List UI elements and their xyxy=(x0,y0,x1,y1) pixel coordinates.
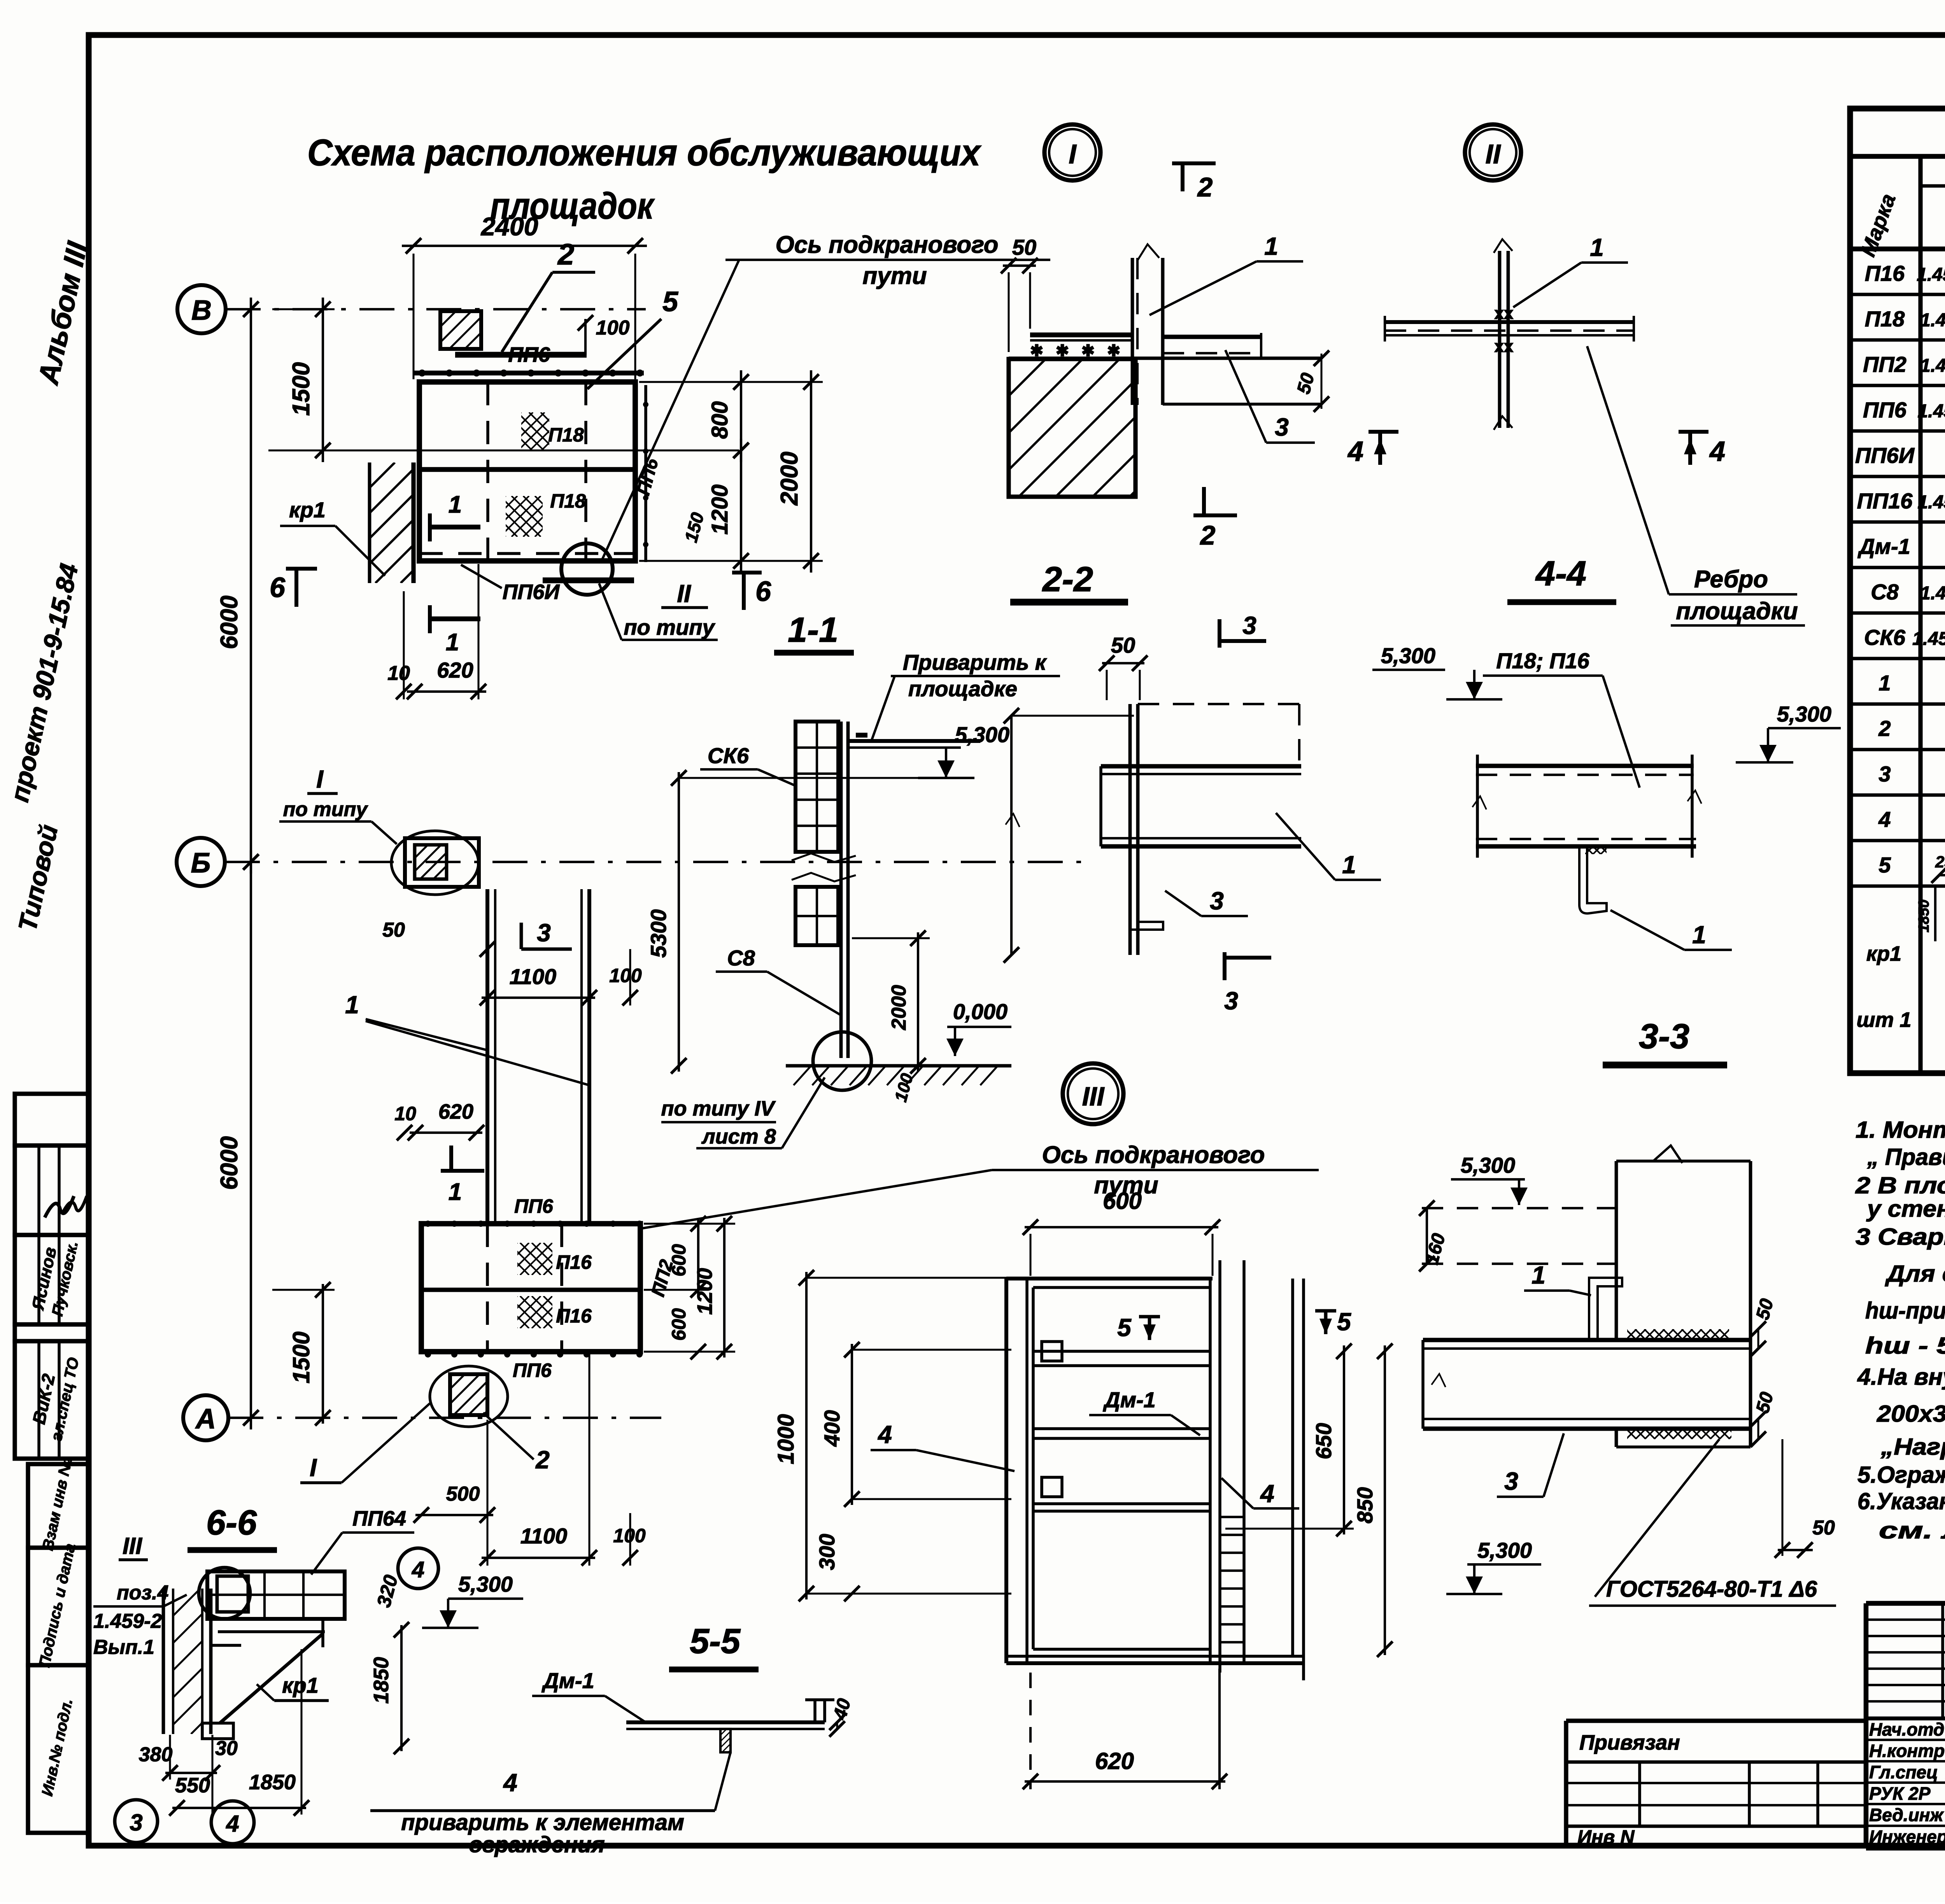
2-2 section mark 3 bottom xyxy=(1223,952,1227,980)
svg-text:50: 50 xyxy=(1111,633,1135,657)
svg-text:2: 2 xyxy=(1878,716,1891,741)
svg-text:СК6: СК6 xyxy=(1864,625,1906,650)
svg-text:А: А xyxy=(195,1403,216,1435)
svg-text:3: 3 xyxy=(1878,762,1891,786)
platform line at 5300 xyxy=(848,739,980,743)
svg-text:1: 1 xyxy=(1264,232,1278,260)
svg-text:400: 400 xyxy=(820,1410,844,1447)
svg-text:xx: xx xyxy=(1495,337,1514,356)
svg-text:300: 300 xyxy=(815,1534,839,1570)
svg-text:Дм-1: Дм-1 xyxy=(1857,534,1910,559)
svg-text:620: 620 xyxy=(437,658,473,682)
upper plan bottom dashed edge xyxy=(419,552,635,555)
svg-text:1: 1 xyxy=(1878,671,1891,695)
svg-text:5,300: 5,300 xyxy=(458,1572,513,1596)
svg-text:ПП6И: ПП6И xyxy=(503,580,560,604)
svg-text:1: 1 xyxy=(1692,921,1706,949)
axis circle V xyxy=(177,285,226,333)
dim 1500 lower xyxy=(322,1284,324,1424)
3-3 beam xyxy=(1423,1338,1750,1342)
svg-text:II: II xyxy=(677,580,691,608)
svg-text:ПП16: ПП16 xyxy=(1857,489,1913,513)
svg-text:III: III xyxy=(123,1533,142,1559)
III rungs xyxy=(1033,1350,1210,1353)
section mark 1 below upper plan xyxy=(428,605,432,633)
svg-text:1.459-2 Вып.2 л.100: 1.459-2 Вып.2 л.100 xyxy=(1912,629,1945,649)
6-6 inner square with circle xyxy=(217,1576,248,1612)
svg-text:1.459-2 Вып.2 л 80: 1.459-2 Вып.2 л 80 xyxy=(1917,492,1945,513)
detail I concrete block xyxy=(1009,359,1135,497)
stamp signatures squiggles xyxy=(45,1196,74,1217)
dim 1500 upper xyxy=(322,298,324,462)
axis dim 6000 upper xyxy=(250,298,252,874)
column strip lines xyxy=(485,889,489,1224)
svg-text:6000: 6000 xyxy=(216,1136,243,1190)
circle at ladder base xyxy=(813,1032,871,1090)
svg-text:ПП6И: ПП6И xyxy=(1855,443,1915,468)
ladder SK6 lower band xyxy=(796,887,838,945)
svg-text:5,300: 5,300 xyxy=(955,722,1009,747)
svg-text:100: 100 xyxy=(596,317,630,339)
III hooks xyxy=(1042,1342,1062,1361)
wall hatch upper plan xyxy=(368,462,371,583)
3-3 dashed levels xyxy=(1422,1207,1616,1209)
svg-text:поз.4: поз.4 xyxy=(117,1582,169,1604)
svg-text:800: 800 xyxy=(707,401,732,439)
svg-text:5300: 5300 xyxy=(646,909,671,958)
left stamp column boxes xyxy=(15,1094,89,1146)
svg-text:шт 1: шт 1 xyxy=(1856,1008,1911,1032)
svg-text:2: 2 xyxy=(1197,172,1213,202)
ground line and hatch xyxy=(786,1064,1011,1068)
svg-text:600: 600 xyxy=(1103,1188,1142,1214)
svg-text:10: 10 xyxy=(387,662,410,685)
svg-text:2: 2 xyxy=(557,238,574,271)
4-4 beam xyxy=(1476,764,1694,768)
ladder rail C8 xyxy=(839,722,843,1058)
circled I top xyxy=(1044,124,1100,180)
svg-text:1500: 1500 xyxy=(288,1331,314,1383)
svg-text:Вып.1: Вып.1 xyxy=(93,1636,154,1659)
svg-text:В: В xyxy=(191,295,212,326)
svg-text:5,300: 5,300 xyxy=(1477,1538,1532,1562)
svg-text:пути: пути xyxy=(862,263,927,289)
svg-text:5: 5 xyxy=(1117,1314,1132,1342)
svg-text:„Нагрузка на площадку не бол: „Нагрузка на площадку не более 1500кн /м… xyxy=(1880,1434,1945,1460)
svg-text:850: 850 xyxy=(1353,1487,1377,1523)
svg-text:I: I xyxy=(1069,139,1077,169)
2-2 left dim line xyxy=(1010,716,1013,955)
upper plan outline xyxy=(419,382,635,561)
section mark 2 above detail I xyxy=(1181,163,1185,191)
axis dim 6000 lower xyxy=(250,850,252,1429)
svg-text:2000: 2000 xyxy=(888,985,910,1030)
table vertical lines xyxy=(1918,156,1922,1073)
svg-text:2-2: 2-2 xyxy=(1042,560,1093,599)
svg-text:50: 50 xyxy=(1012,235,1036,259)
svg-text:Б: Б xyxy=(191,848,211,879)
svg-text:1.459-2 Вып.2 л32: 1.459-2 Вып.2 л32 xyxy=(1920,310,1945,331)
6-6 bottom box xyxy=(202,1723,233,1739)
2-2 wall column xyxy=(1128,704,1132,955)
svg-text:1200: 1200 xyxy=(693,1268,717,1315)
svg-text:С8: С8 xyxy=(1871,580,1899,604)
svg-text:1100: 1100 xyxy=(510,964,556,989)
svg-text:1.459-2: 1.459-2 xyxy=(93,1610,162,1633)
3-3 wall column xyxy=(1615,1161,1618,1340)
svg-text:Дм-1: Дм-1 xyxy=(541,1668,594,1693)
III right rail rungs xyxy=(1220,1516,1244,1518)
5-5 weld tick hatched xyxy=(720,1729,731,1752)
svg-text:2: 2 xyxy=(1200,520,1216,550)
svg-text:1.459-2 Вып 2 л75: 1.459-2 Вып 2 л75 xyxy=(1920,356,1945,376)
title block outer xyxy=(1864,1603,1869,1848)
svg-text:380: 380 xyxy=(139,1743,173,1766)
svg-text:Инженер: Инженер xyxy=(1869,1827,1945,1847)
svg-text:4: 4 xyxy=(1878,807,1891,832)
svg-text:5-5: 5-5 xyxy=(690,1622,741,1661)
5-5 plate drawing xyxy=(626,1720,825,1724)
6-6 wall hatched xyxy=(162,1589,165,1734)
junction circle II xyxy=(561,543,613,595)
upper plan divider xyxy=(419,467,635,472)
thick bar element 2 xyxy=(455,352,587,358)
svg-text:3: 3 xyxy=(1504,1467,1518,1495)
svg-text:3: 3 xyxy=(1224,987,1238,1015)
svg-text:100: 100 xyxy=(609,965,642,986)
svg-text:hш - 5мм, кроме оговоренных.: hш - 5мм, кроме оговоренных. xyxy=(1865,1333,1945,1359)
svg-text:1: 1 xyxy=(1590,233,1604,261)
dim 2000 right xyxy=(810,370,812,573)
4-4 channel below xyxy=(1579,846,1607,913)
III dim 850 xyxy=(1384,1345,1386,1655)
svg-text:П18: П18 xyxy=(548,424,584,446)
circled 4 upper xyxy=(398,1548,438,1589)
svg-text:650: 650 xyxy=(1311,1423,1336,1459)
section mark 2 below detail I xyxy=(1202,487,1206,515)
svg-text:1.459-2 Вып.2 л 76: 1.459-2 Вып.2 л 76 xyxy=(1917,401,1945,422)
svg-text:4: 4 xyxy=(412,1557,424,1582)
III view outer frame xyxy=(1004,1279,1008,1663)
svg-text:5,300: 5,300 xyxy=(1461,1153,1515,1177)
ladder SK6 upper band xyxy=(796,722,838,852)
dim 2000 xyxy=(917,932,919,1072)
svg-text:550: 550 xyxy=(175,1774,210,1797)
lower plan divider xyxy=(421,1287,640,1292)
detail II beam xyxy=(1385,320,1634,324)
svg-text:Вед.инж: Вед.инж xyxy=(1869,1805,1944,1825)
svg-text:III: III xyxy=(1082,1082,1105,1111)
dim 1200 right xyxy=(740,439,742,573)
2-2 beam flanges xyxy=(1101,764,1301,768)
svg-text:ПП6: ПП6 xyxy=(1863,398,1907,422)
circled 3 bottom xyxy=(115,1800,158,1843)
leader 4 privarit xyxy=(715,1752,731,1811)
svg-text:П18; П16: П18; П16 xyxy=(1496,648,1589,673)
table ved outer frame xyxy=(1850,109,1945,1073)
svg-text:4: 4 xyxy=(1347,436,1363,467)
detail I left platform xyxy=(1030,333,1132,338)
2-2 channel below xyxy=(1130,846,1163,930)
svg-text:4: 4 xyxy=(226,1811,239,1837)
small plan at axis B xyxy=(405,838,479,887)
svg-text:ПП64: ПП64 xyxy=(352,1507,406,1530)
detail I column xyxy=(1131,258,1134,405)
dim 1850 rotated xyxy=(400,1625,403,1751)
svg-text:С8: С8 xyxy=(727,946,755,970)
leader GOST xyxy=(1595,1439,1719,1597)
svg-text:6000: 6000 xyxy=(216,596,243,649)
III dims 1000 400 300 xyxy=(805,1272,808,1599)
svg-text:5,300: 5,300 xyxy=(1777,702,1831,726)
2-2 section mark 3 top xyxy=(1218,619,1221,648)
svg-text:1: 1 xyxy=(449,1179,462,1205)
svg-text:3: 3 xyxy=(1275,413,1289,441)
svg-text:ГОСТ5264-80-Т1 Δ6: ГОСТ5264-80-Т1 Δ6 xyxy=(1606,1576,1817,1602)
hatched square top (element 2) xyxy=(440,311,481,349)
III right rail strip xyxy=(1291,1279,1294,1656)
leader crane rail upper xyxy=(601,260,739,562)
svg-text:„ Правила производства и прием: „ Правила производства и приемки работ.М… xyxy=(1867,1144,1945,1170)
svg-text:Нач.отд: Нач.отд xyxy=(1869,1719,1944,1739)
svg-text:Гл.спец: Гл.спец xyxy=(1869,1762,1938,1782)
lower plan bottom dots xyxy=(425,1351,431,1357)
svg-text:Инв N: Инв N xyxy=(1577,1826,1635,1848)
svg-text:3: 3 xyxy=(130,1809,142,1836)
table header bottom line xyxy=(1850,247,1945,252)
ladder break marks xyxy=(792,853,856,862)
svg-text:620: 620 xyxy=(1095,1748,1134,1774)
axis dash line V xyxy=(226,308,646,310)
section mark 1 inside upper plan xyxy=(428,513,432,541)
svg-text:П16: П16 xyxy=(556,1251,592,1273)
detail I right beam xyxy=(1163,335,1261,339)
svg-text:3: 3 xyxy=(1242,611,1256,639)
svg-text:600: 600 xyxy=(668,1308,690,1341)
svg-text:1: 1 xyxy=(1342,851,1356,879)
svg-text:площадки: площадки xyxy=(1676,598,1798,625)
circled II top xyxy=(1465,124,1521,180)
svg-text:6: 6 xyxy=(270,572,286,603)
svg-text:1. Монтаж площадок производ: 1. Монтаж площадок производить в соответ… xyxy=(1856,1117,1945,1143)
svg-text:по типу: по типу xyxy=(624,615,715,639)
svg-text:1.459-2 Вып.1 л64: 1.459-2 Вып.1 л64 xyxy=(1920,583,1945,604)
leader P18 P16 xyxy=(1603,676,1640,788)
svg-text:4: 4 xyxy=(1709,436,1725,467)
title block upper small rows xyxy=(1866,1618,1945,1621)
hatched square below lower plan xyxy=(450,1374,487,1415)
svg-text:0,000: 0,000 xyxy=(953,999,1008,1024)
svg-text:1000: 1000 xyxy=(773,1414,799,1464)
svg-text:5: 5 xyxy=(1878,853,1891,877)
svg-text:П18: П18 xyxy=(550,490,586,512)
svg-text:3 Сварку производить электрод: 3 Сварку производить электродами типа Э-… xyxy=(1856,1224,1945,1250)
svg-text:2000: 2000 xyxy=(776,452,803,506)
svg-text:кр1: кр1 xyxy=(1866,942,1901,965)
svg-text:50: 50 xyxy=(1812,1517,1835,1539)
svg-text:П16: П16 xyxy=(1865,261,1905,286)
table title row line xyxy=(1850,154,1945,159)
svg-text:РУК 2Р: РУК 2Р xyxy=(1869,1783,1931,1804)
svg-text:5,300: 5,300 xyxy=(1381,643,1435,668)
svg-text:кр1: кр1 xyxy=(282,1673,319,1697)
dim 5300 vertical xyxy=(678,772,680,1072)
svg-text:3-3: 3-3 xyxy=(1639,1017,1689,1056)
svg-text:500: 500 xyxy=(446,1483,480,1505)
svg-text:hш-принять по указанной серии: hш-принять по указанной серии, для остал… xyxy=(1865,1298,1945,1324)
lower plan top dots xyxy=(425,1221,431,1227)
svg-text:5: 5 xyxy=(1337,1308,1351,1336)
dim 100 upper plan xyxy=(584,319,587,355)
svg-text:2 В площадках П16 и П18 ре: 2 В площадках П16 и П18 ребра для крепле… xyxy=(1855,1172,1945,1198)
svg-text:xx: xx xyxy=(1495,304,1514,323)
svg-text:приварить к элементам: приварить к элементам xyxy=(401,1810,684,1835)
svg-text:ПП6: ПП6 xyxy=(514,1195,554,1217)
svg-text:площадке: площадке xyxy=(908,676,1017,701)
leader rebro xyxy=(1587,346,1669,594)
leader 2 upper plan xyxy=(502,272,552,352)
svg-text:1500: 1500 xyxy=(288,362,315,416)
svg-text:1850: 1850 xyxy=(370,1657,393,1704)
svg-text:СК6: СК6 xyxy=(708,743,749,768)
svg-text:5: 5 xyxy=(662,286,678,317)
table row lines xyxy=(1850,293,1945,296)
svg-text:ограждения: ограждения xyxy=(469,1832,605,1857)
svg-text:у стены и между площадками с: у стены и между площадками срезать. xyxy=(1866,1196,1945,1222)
svg-text:10: 10 xyxy=(394,1103,416,1125)
detail II column xyxy=(1498,251,1502,428)
svg-text:1.459-2 Вып.2 П.32: 1.459-2 Вып.2 П.32 xyxy=(1917,264,1945,285)
svg-text:250: 250 xyxy=(1935,853,1945,871)
svg-text:Ребро: Ребро xyxy=(1694,566,1768,593)
upper plan top beam PP6 with dots xyxy=(414,371,644,376)
svg-text:П18: П18 xyxy=(1865,307,1905,331)
6-6 bracket xyxy=(218,1630,325,1633)
svg-text:3: 3 xyxy=(1210,887,1224,915)
svg-text:1: 1 xyxy=(345,991,359,1019)
svg-text:лист 8: лист 8 xyxy=(701,1125,776,1148)
leader privarit xyxy=(871,676,895,741)
svg-text:1850: 1850 xyxy=(1916,900,1932,933)
svg-text:1100: 1100 xyxy=(520,1524,567,1548)
axis circle B xyxy=(177,838,225,886)
svg-text:Схема расположения обслуживающ: Схема расположения обслуживающих xyxy=(307,132,981,173)
axis dash line A xyxy=(228,1417,661,1419)
svg-text:Ось подкранового: Ось подкранового xyxy=(1042,1142,1265,1168)
axis dash line B xyxy=(225,861,1085,863)
svg-text:I: I xyxy=(310,1454,317,1482)
svg-text:1: 1 xyxy=(1531,1261,1545,1289)
svg-text:1: 1 xyxy=(449,491,462,518)
detail I beam line xyxy=(1009,357,1321,360)
6-6 top beam with grid xyxy=(207,1571,345,1619)
svg-text:Дм-1: Дм-1 xyxy=(1103,1387,1156,1412)
2-2 dashed outline top xyxy=(1138,703,1299,705)
svg-text:II: II xyxy=(1486,139,1501,169)
axis circle A xyxy=(183,1395,228,1440)
svg-text:1850: 1850 xyxy=(249,1771,296,1794)
svg-text:6-6: 6-6 xyxy=(206,1503,257,1542)
svg-text:50: 50 xyxy=(382,919,405,941)
lower plan outline xyxy=(421,1224,640,1352)
svg-text:1: 1 xyxy=(446,629,459,656)
svg-text:1200: 1200 xyxy=(707,484,732,534)
6-6 witness lines xyxy=(169,1735,171,1780)
svg-text:П16: П16 xyxy=(556,1305,592,1327)
svg-text:2400: 2400 xyxy=(480,212,538,241)
circled III xyxy=(1063,1063,1123,1124)
svg-text:200х300 из листовой стали б: 200х300 из листовой стали б =1.0мм. с на… xyxy=(1877,1401,1945,1427)
svg-text:Приварить к: Приварить к xyxy=(903,650,1047,674)
svg-text:3: 3 xyxy=(537,919,551,947)
svg-text:4: 4 xyxy=(877,1421,892,1449)
upper plan dashed verticals xyxy=(486,382,489,561)
svg-text:600: 600 xyxy=(668,1244,690,1277)
svg-text:Н.контр: Н.контр xyxy=(1869,1741,1945,1761)
dim 800 right xyxy=(740,370,742,462)
lower plan right dims 600 600 1200 xyxy=(697,1218,699,1296)
svg-text:ПП2: ПП2 xyxy=(1863,352,1906,377)
stamp lower column xyxy=(28,1464,89,1548)
upper plan right edge pp6 strip xyxy=(644,385,647,562)
svg-text:4.На внутренней стороне огр: 4.На внутренней стороне ограждения устан… xyxy=(1857,1364,1945,1390)
svg-text:кр1: кр1 xyxy=(289,497,326,522)
svg-text:6: 6 xyxy=(755,576,771,607)
svg-text:Привязан: Привязан xyxy=(1579,1731,1680,1754)
svg-text:по типу: по типу xyxy=(283,798,369,821)
3-3 channel element 1 xyxy=(1589,1278,1622,1338)
svg-text:ПП6: ПП6 xyxy=(513,1359,552,1381)
section mark 1 mid xyxy=(449,1146,453,1171)
svg-text:I: I xyxy=(316,765,324,793)
svg-text:по типу IV: по типу IV xyxy=(661,1097,776,1120)
svg-text:5.Ограждение в зоне лестниц: 5.Ограждение в зоне лестницы вырезать по… xyxy=(1857,1462,1945,1488)
III dim 650 xyxy=(1343,1345,1345,1534)
svg-text:Для сварки элементов,приняты: Для сварки элементов,принятых по серии 1… xyxy=(1885,1261,1945,1287)
svg-text:30: 30 xyxy=(215,1737,238,1760)
lower plan dashed verticals xyxy=(486,1224,489,1352)
dim 2400 xyxy=(402,245,647,247)
svg-text:4: 4 xyxy=(503,1769,517,1797)
table sub header line xyxy=(1920,184,1945,188)
circled 4 bottom xyxy=(211,1801,254,1844)
title block signature rows xyxy=(1866,1739,1945,1741)
svg-text:6.Указания по антикоррозионно: 6.Указания по антикоррозионной защите xyxy=(1857,1488,1945,1514)
privyazan box xyxy=(1564,1721,1568,1848)
leader crane rail lower xyxy=(642,1170,992,1228)
svg-text:см. лист.1: см. лист.1 xyxy=(1879,1517,1945,1543)
svg-text:4: 4 xyxy=(1260,1480,1274,1508)
svg-text:Ось подкранового: Ось подкранового xyxy=(775,231,998,258)
svg-text:2: 2 xyxy=(535,1446,550,1474)
svg-text:1-1: 1-1 xyxy=(788,611,838,650)
svg-text:4-4: 4-4 xyxy=(1535,554,1586,593)
svg-text:620: 620 xyxy=(438,1100,473,1123)
